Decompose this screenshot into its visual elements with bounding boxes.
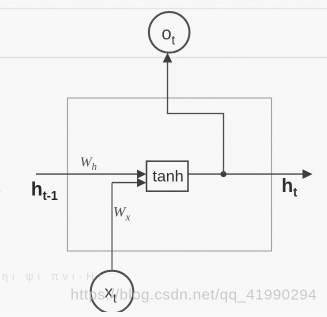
arrowhead h_t output <box>303 169 313 179</box>
node junction dot <box>221 171 227 177</box>
wire: W_x horizontal into tanh <box>112 182 139 184</box>
tanh box U1 <box>147 161 189 191</box>
arrowhead into o_t <box>163 53 172 63</box>
svg-text:ηι ψι πνι·ΗΙ: ηι ψι πνι·ΗΙ <box>2 271 105 283</box>
faint scan line <box>0 57 327 59</box>
cell boundary rectangle <box>68 98 272 251</box>
arrowhead into tanh (lower) <box>137 178 146 187</box>
node o_t circle <box>149 12 190 53</box>
svg-text:ŀ: ŀ <box>0 185 1 199</box>
wire: W_x vertical from x_t <box>111 183 113 271</box>
wire: tanh output to right <box>188 173 304 175</box>
arrowhead into tanh (upper) <box>137 170 146 179</box>
wire: h_t-1 input line <box>36 173 139 175</box>
faint top scan line <box>0 8 327 10</box>
node x_t circle <box>91 271 134 314</box>
wire: junction up and left step <box>168 61 224 174</box>
